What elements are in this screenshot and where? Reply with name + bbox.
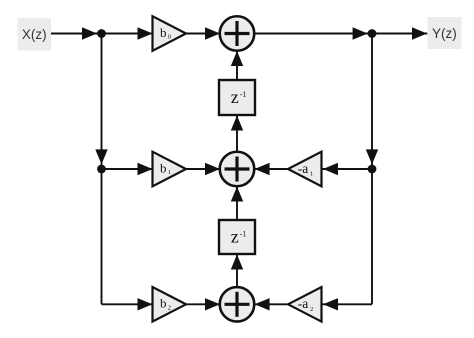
svg-text:0: 0 xyxy=(168,34,171,41)
svg-text:b: b xyxy=(160,160,167,175)
svg-text:-a: -a xyxy=(298,296,309,311)
svg-text:-1: -1 xyxy=(240,230,247,239)
svg-text:2: 2 xyxy=(168,305,171,312)
svg-text:b: b xyxy=(160,296,167,311)
svg-text:1: 1 xyxy=(310,171,313,178)
svg-text:2: 2 xyxy=(310,306,313,313)
svg-text:-1: -1 xyxy=(240,90,247,99)
svg-text:z: z xyxy=(231,87,239,107)
svg-text:Y(z): Y(z) xyxy=(432,26,457,41)
svg-text:b: b xyxy=(160,25,167,40)
svg-text:X(z): X(z) xyxy=(22,27,47,42)
svg-text:-a: -a xyxy=(298,161,309,176)
svg-text:1: 1 xyxy=(168,169,171,176)
svg-text:z: z xyxy=(231,227,239,247)
